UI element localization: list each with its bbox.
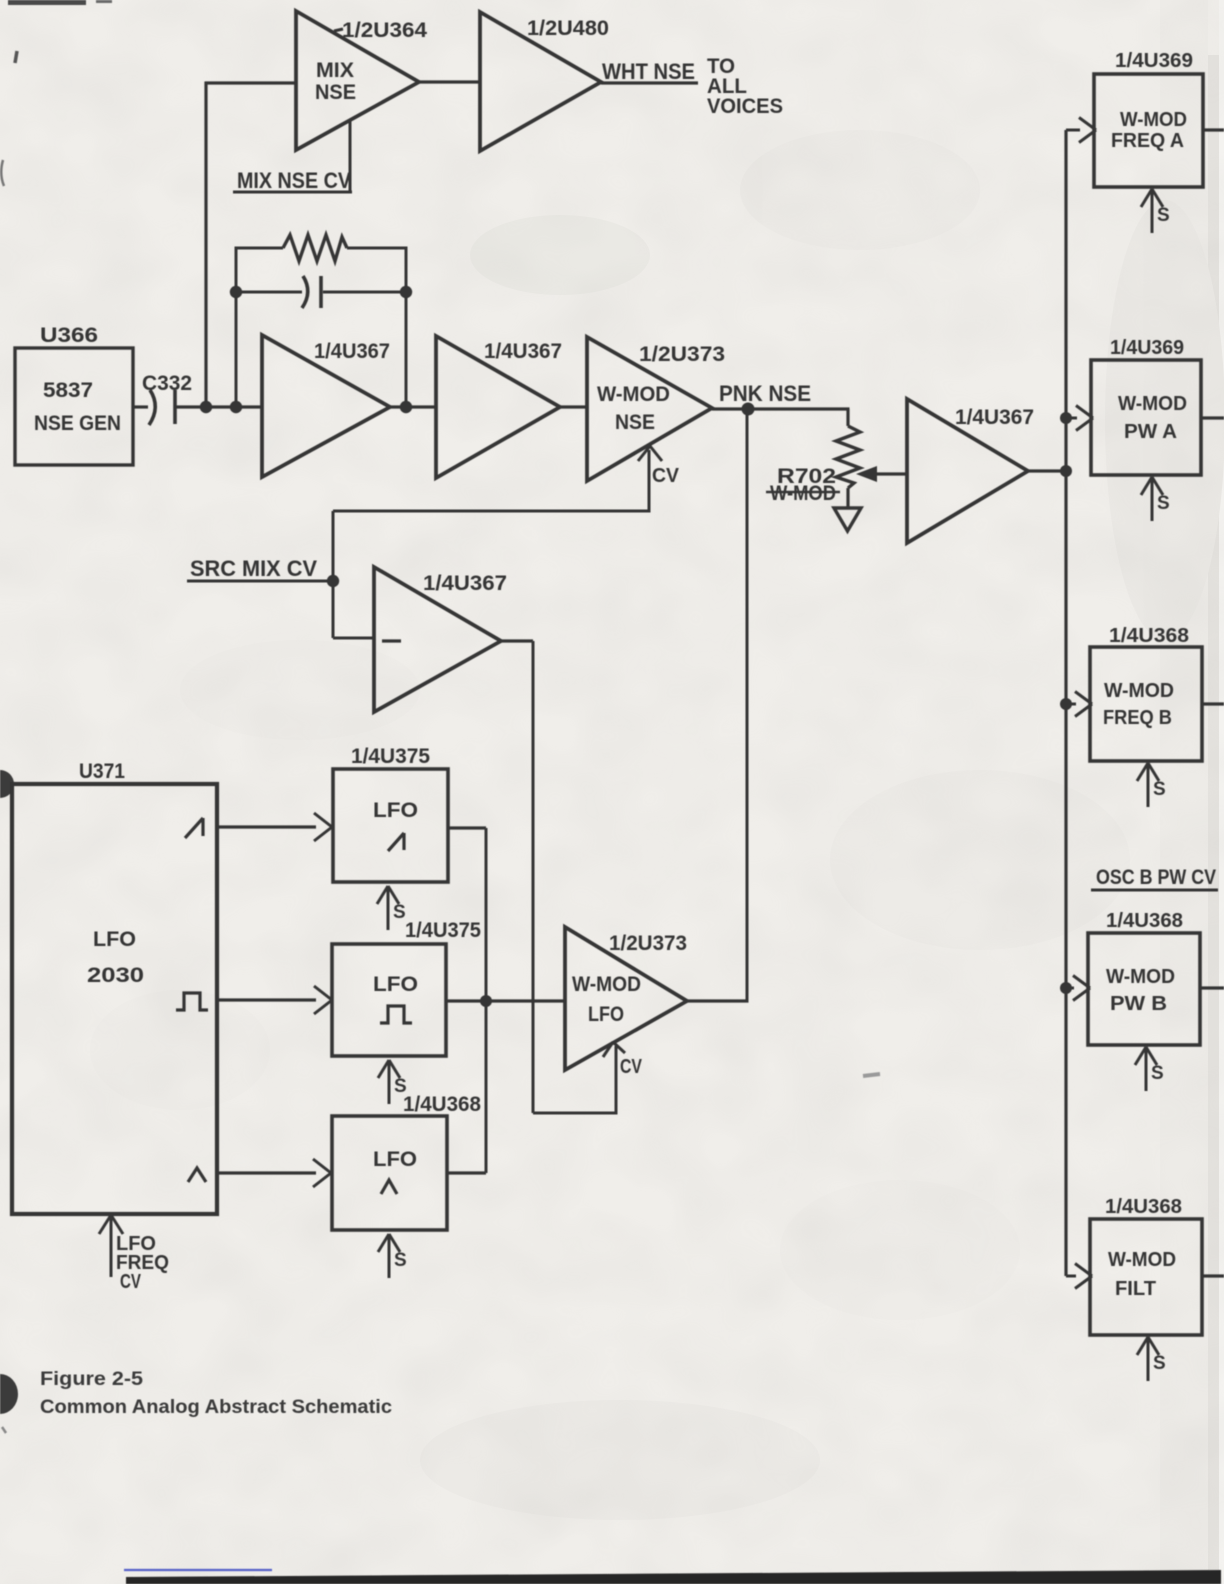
scan mark: left punch-hole blob near U371 [0, 770, 14, 798]
feedback right leg [405, 247, 408, 408]
svg-text:MIX NSE CV: MIX NSE CV [237, 168, 351, 193]
svg-text:FREQ B: FREQ B [1103, 707, 1172, 729]
svg-text:S: S [393, 902, 406, 923]
svg-text:1/4U375: 1/4U375 [405, 919, 481, 942]
svg-text:S: S [1151, 1063, 1164, 1084]
S input of U369b [1151, 478, 1154, 521]
modulation box U369a (W-MOD FREQ A) [1094, 74, 1203, 187]
triangle glyph box3 [381, 1180, 397, 1194]
wire: bus driver output to bus [1028, 469, 1066, 472]
svg-text:1/4U367: 1/4U367 [955, 406, 1034, 429]
wiper arrow of R702 [856, 466, 877, 482]
scan mark: small dash right-middle [863, 1074, 880, 1076]
sample-hold box U375b (LFO pulse) [332, 944, 446, 1056]
wire: bus into U369b [1060, 412, 1072, 424]
vertical CV bus [1064, 130, 1067, 1276]
svg-text:LFO: LFO [588, 1003, 624, 1026]
svg-text:LFO: LFO [373, 1148, 417, 1171]
wire: bus into U368d [1066, 1275, 1076, 1278]
wire: U367b output to W-MOD NSE [560, 405, 587, 408]
wire: U371 pulse out to LFO box 2 [217, 998, 316, 1001]
svg-text:Figure 2-5: Figure 2-5 [40, 1369, 143, 1390]
wire: WHT NSE output [601, 81, 698, 84]
svg-text:1/4U369: 1/4U369 [1115, 50, 1193, 72]
potentiometer R702 W-MOD [846, 409, 849, 426]
svg-text:1/2U364: 1/2U364 [342, 19, 427, 42]
pulse glyph in U371 [176, 993, 208, 1010]
wire: C332 to amp input [176, 405, 262, 408]
wire: U368c output to page edge [1200, 986, 1224, 989]
VCA U373a (W-MOD NSE) [587, 337, 712, 481]
wire: inverter output down to W-MOD LFO CV [501, 639, 533, 642]
wire: U368b output to page edge [1202, 702, 1224, 705]
wire: bus into U369a [1066, 129, 1080, 132]
modulation box U368c (W-MOD PW B) [1088, 933, 1200, 1045]
feedback network around U367a: left leg [235, 247, 238, 408]
wire: MIX NSE CV into bottom of U364 [349, 119, 352, 192]
svg-text:PW B: PW B [1110, 993, 1167, 1015]
wire: LFO box3 output up [447, 1171, 486, 1174]
scan mark: top edge streak [8, 0, 86, 5]
wire: U369a output to page edge [1203, 128, 1224, 131]
S input of U368a [388, 1235, 391, 1278]
scan mark: apostrophe top-left [15, 51, 17, 63]
wire: PNK NSE down to W-MOD LFO output [746, 409, 749, 1001]
S input of U368d [1147, 1338, 1150, 1381]
op-amp U480 (white noise buffer) [480, 12, 601, 151]
svg-text:1/2U480: 1/2U480 [527, 17, 609, 40]
ramp glyph box1 [388, 833, 404, 851]
wire: W-MOD LFO output to PNK NSE node [687, 999, 749, 1002]
op-amp U367b (second noise amp) [436, 336, 560, 478]
svg-text:5837: 5837 [43, 379, 93, 402]
wire: LFO box1 output down [448, 826, 486, 829]
svg-text:NSE: NSE [615, 411, 655, 434]
svg-text:W-MOD: W-MOD [1118, 393, 1187, 415]
modulation box U369b (W-MOD PW A) [1091, 360, 1201, 475]
svg-text:Common Analog Abstract Schemat: Common Analog Abstract Schematic [40, 1397, 392, 1418]
svg-text:U366: U366 [40, 324, 98, 347]
svg-text:W-MOD: W-MOD [572, 973, 641, 996]
wire: U368d output to page edge [1202, 1274, 1224, 1277]
svg-text:S: S [1153, 1353, 1166, 1374]
svg-text:SRC MIX CV: SRC MIX CV [190, 556, 317, 581]
scan mark: left edge curve [1, 160, 4, 186]
node: LFO sum junction [480, 995, 492, 1007]
LFO FREQ CV arrow into U371 [110, 1218, 113, 1277]
svg-text:1/4U368: 1/4U368 [1109, 625, 1189, 647]
svg-text:MIX: MIX [316, 59, 354, 82]
svg-text:PNK NSE: PNK NSE [719, 381, 811, 406]
feedback resistor [236, 247, 283, 250]
wire: U366 output [133, 405, 148, 408]
svg-text:LFO: LFO [93, 928, 136, 951]
node: cap right junction [400, 286, 412, 298]
triangle glyph in U371 [188, 1168, 206, 1182]
wire: PNK NSE output [712, 407, 850, 410]
wire: bus into U368b [1060, 698, 1072, 710]
op-amp U367d (bus driver) [907, 399, 1028, 543]
svg-text:OSC B PW CV: OSC B PW CV [1096, 866, 1216, 889]
svg-text:W-MOD: W-MOD [1104, 680, 1174, 702]
op-amp U364 (MIX NSE) [296, 11, 419, 150]
svg-text:W-MOD: W-MOD [1120, 109, 1187, 131]
node: MIX NSE tap [200, 401, 212, 413]
wire: U367a output to U367b [390, 405, 436, 408]
svg-text:1/2U373: 1/2U373 [609, 932, 687, 955]
svg-text:1/4U367: 1/4U367 [314, 340, 390, 363]
node: bus driver junction [1060, 465, 1072, 477]
svg-text:S: S [1157, 205, 1170, 226]
sample-hold box U375a (LFO ramp) [333, 769, 448, 882]
svg-text:1/4U375: 1/4U375 [351, 745, 430, 768]
svg-text:NSE: NSE [315, 81, 356, 104]
S input of U368c [1145, 1048, 1148, 1091]
svg-text:1/2U373: 1/2U373 [639, 343, 725, 366]
wire: U369b output to page edge [1201, 416, 1224, 419]
scan mark: left punch-hole blob near figure caption [0, 1374, 18, 1414]
svg-text:CV: CV [120, 1271, 141, 1293]
svg-text:1/4U367: 1/4U367 [484, 340, 562, 363]
svg-text:1/4U369: 1/4U369 [1110, 337, 1184, 359]
VCA U373b (W-MOD LFO) [565, 927, 687, 1070]
svg-text:S: S [1157, 493, 1170, 514]
S input of U375a [387, 887, 390, 930]
svg-text:CV: CV [620, 1056, 643, 1078]
svg-text:1/4U368: 1/4U368 [1106, 910, 1183, 932]
node: SRC MIX CV junction [327, 575, 339, 587]
CV arrow into W-MOD LFO [603, 1042, 613, 1057]
svg-text:LFO: LFO [373, 799, 418, 822]
CV arrow into W-MOD NSE [648, 450, 651, 511]
node: feedback right tap [400, 401, 412, 413]
svg-text:W-MOD: W-MOD [770, 482, 836, 505]
svg-text:1/4U367: 1/4U367 [423, 572, 507, 595]
svg-text:VOICES: VOICES [707, 95, 783, 118]
svg-text:U371: U371 [79, 760, 125, 783]
wire: noise node up to MIX NSE input [204, 82, 207, 408]
wire: bus into U368c [1060, 982, 1072, 994]
op-amp U367a (first noise amp) [262, 335, 390, 477]
svg-text:W-MOD: W-MOD [597, 383, 670, 406]
scan mark: small tick below blob [2, 1427, 6, 1433]
ramp glyph in U371 [185, 818, 203, 838]
svg-text:FREQ A: FREQ A [1111, 130, 1184, 152]
node: cap left junction [230, 286, 242, 298]
op-amp U367c (SRC MIX inverter) [374, 567, 501, 712]
svg-text:1/4U368: 1/4U368 [403, 1093, 481, 1116]
wire: up and over to W-MOD NSE CV [332, 511, 335, 581]
wire: U371 triangle out to LFO box 3 [217, 1171, 316, 1174]
feedback capacitor [236, 291, 302, 294]
svg-text:FILT: FILT [1115, 1278, 1156, 1300]
svg-text:W-MOD: W-MOD [1106, 966, 1175, 988]
wire: U364 output to U480 input [419, 80, 480, 83]
S input of U368b [1147, 764, 1150, 807]
modulation box U368d (W-MOD FILT) [1090, 1219, 1202, 1335]
LFO chip U371 [12, 784, 217, 1214]
S input of U369a [1151, 190, 1154, 233]
node: feedback left tap [230, 401, 242, 413]
noise generator U366 [15, 348, 133, 465]
pulse glyph box2 [380, 1006, 412, 1023]
ground below R702 [834, 508, 861, 531]
wire: LFO box2 output to W-MOD LFO [446, 999, 565, 1002]
wire: SRC MIX CV lead [187, 580, 333, 583]
S input of U375b [388, 1061, 391, 1104]
modulation box U368b (W-MOD FREQ B) [1090, 647, 1202, 761]
svg-text:NSE GEN: NSE GEN [34, 412, 121, 435]
sample-hold box U368a (LFO triangle) [332, 1116, 447, 1230]
minus sign inside inverter [382, 639, 401, 642]
svg-text:LFO: LFO [373, 973, 418, 996]
wire: U371 ramp out to LFO box 1 [217, 825, 316, 828]
svg-text:PW A: PW A [1124, 421, 1177, 443]
scan mark: bottom black bar [126, 1570, 1221, 1584]
svg-text:1/4U368: 1/4U368 [1105, 1196, 1182, 1218]
svg-text:2030: 2030 [87, 964, 144, 987]
node: PNK NSE junction [742, 403, 755, 416]
svg-text:WHT NSE: WHT NSE [602, 59, 695, 84]
svg-text:W-MOD: W-MOD [1108, 1249, 1176, 1271]
wire: down into inverter input [332, 581, 335, 638]
scan mark: blue line above bottom bar [124, 1569, 272, 1571]
svg-text:S: S [394, 1250, 407, 1271]
svg-text:S: S [1153, 779, 1166, 800]
svg-text:CV: CV [652, 465, 680, 487]
